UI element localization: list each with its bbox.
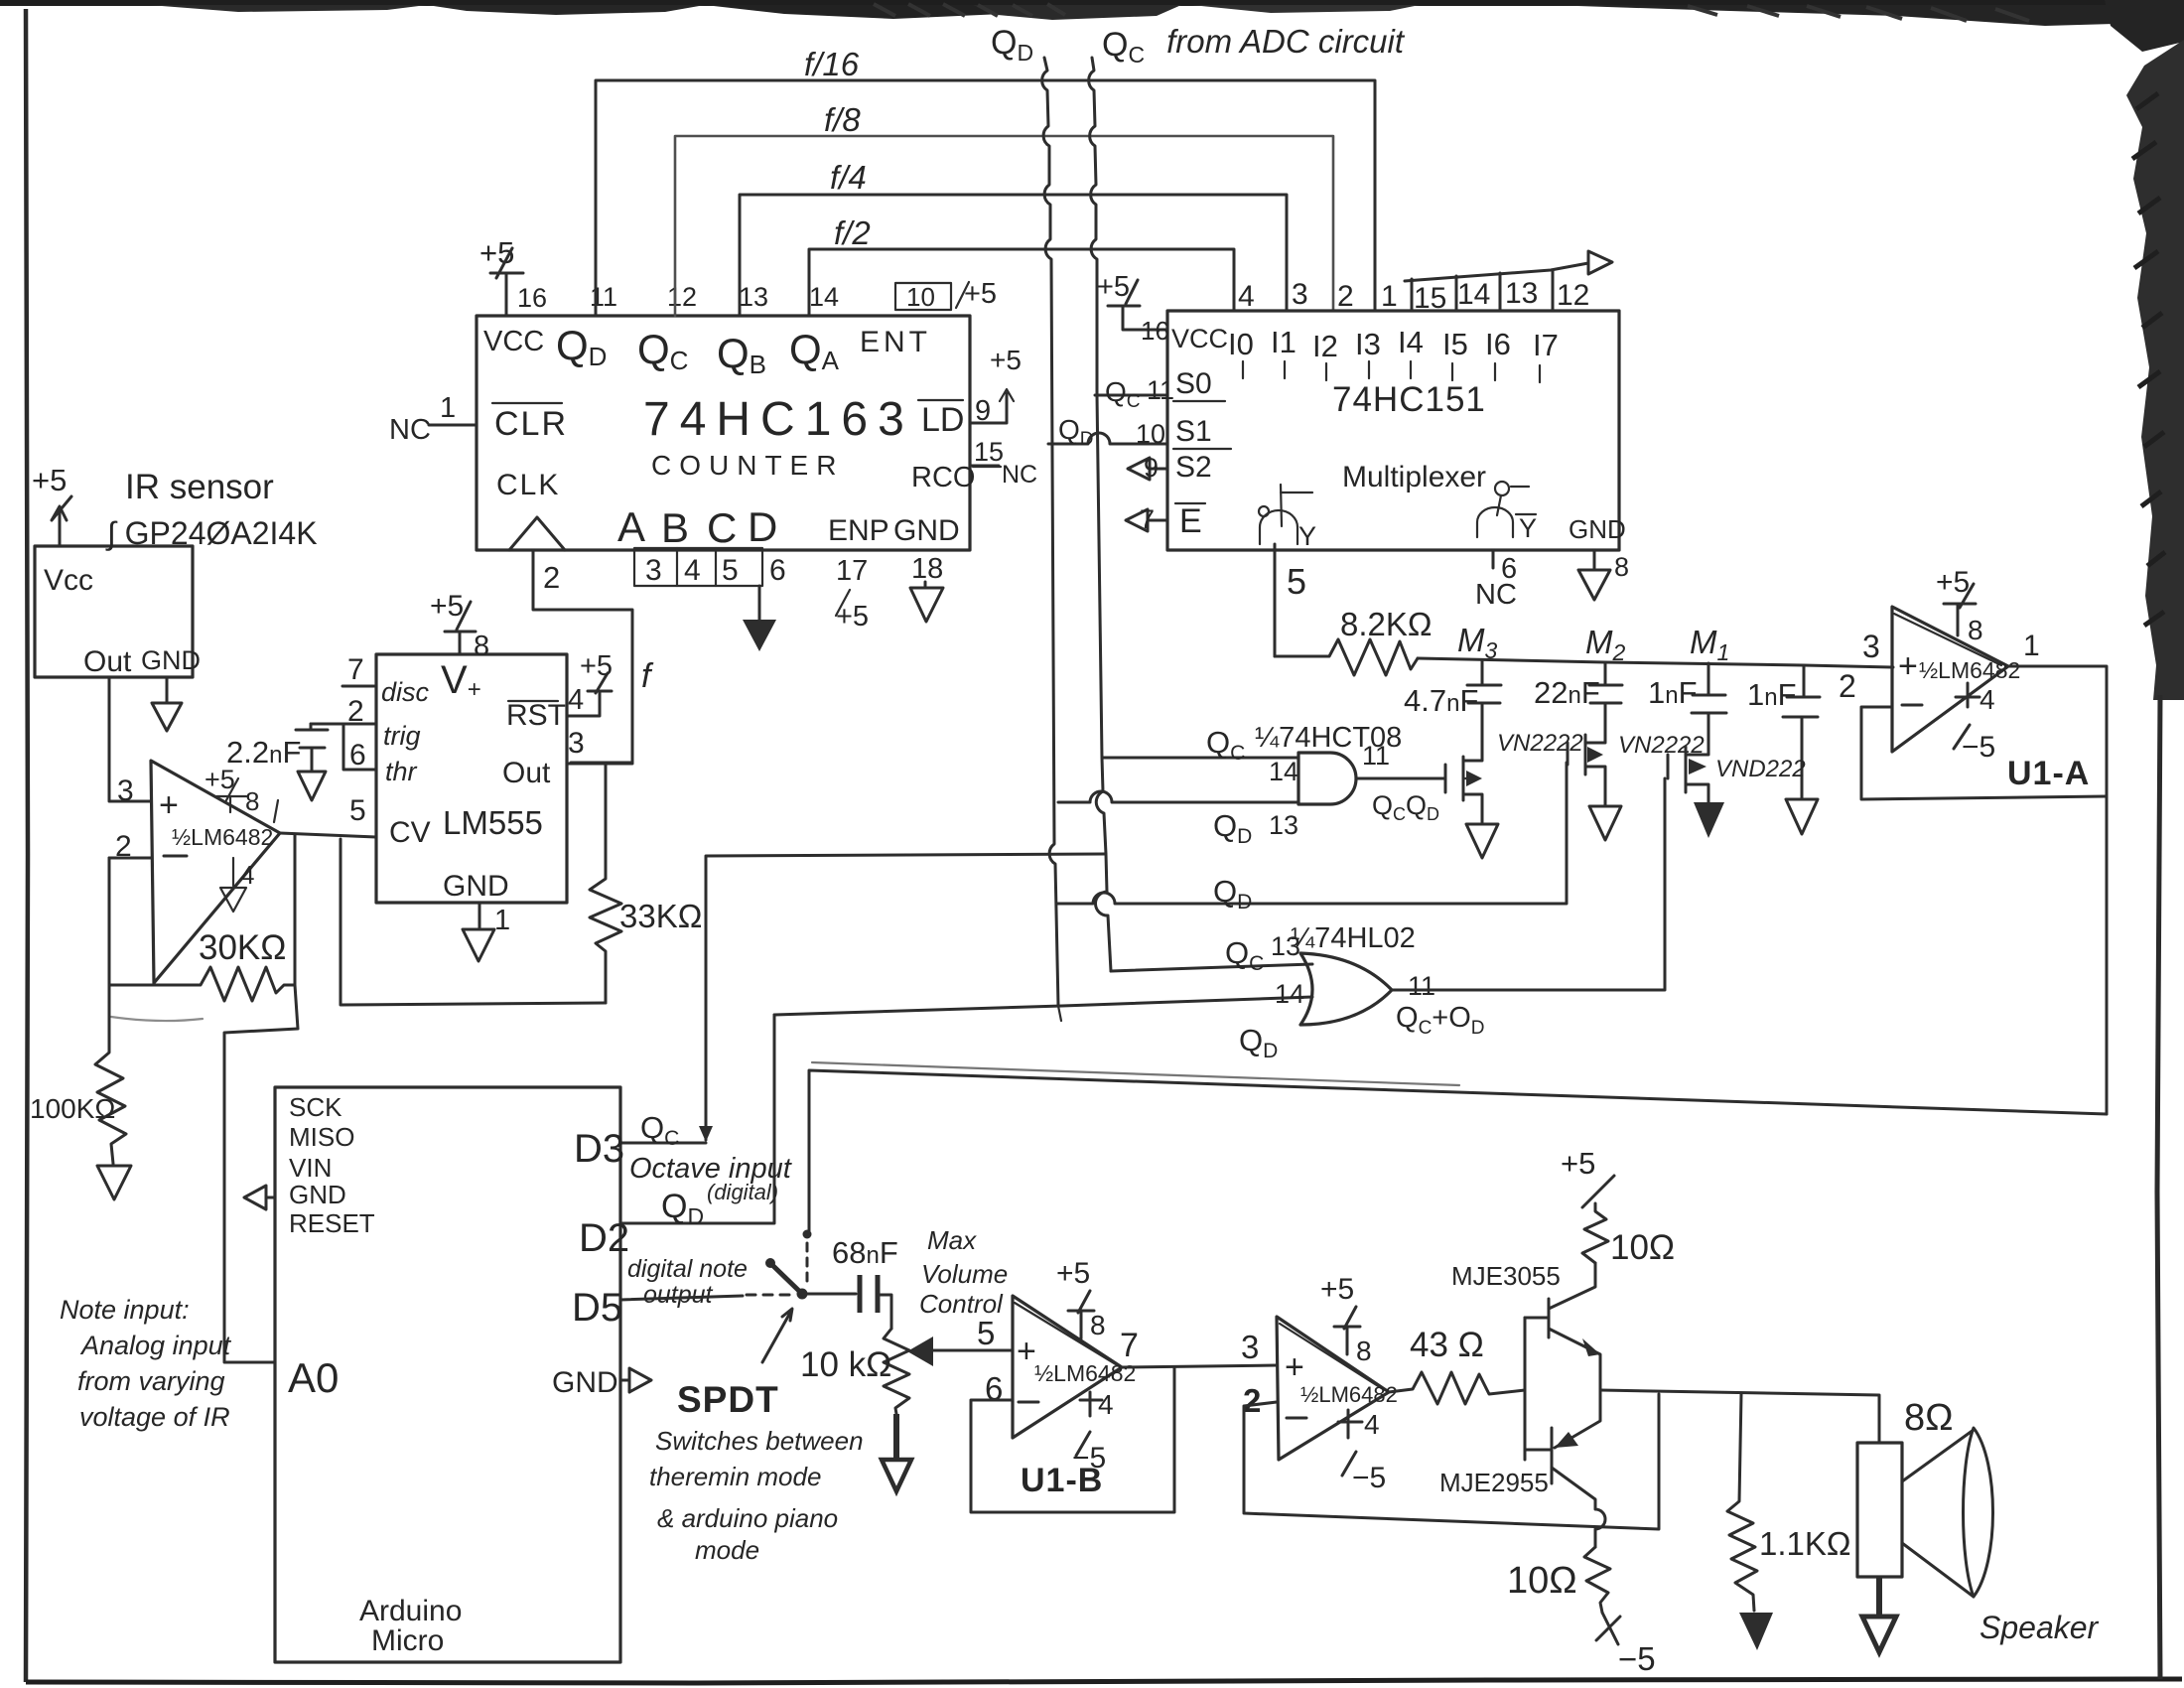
internal Ybar gate symbol bbox=[1477, 482, 1537, 543]
svg-text:11: 11 bbox=[1408, 971, 1435, 1001]
svg-text:MJE3055: MJE3055 bbox=[1451, 1261, 1561, 1291]
svg-text:U1-A: U1-A bbox=[2007, 755, 2090, 792]
svg-text:∫ GP24ØA2I4K: ∫ GP24ØA2I4K bbox=[105, 515, 318, 551]
svg-text:8: 8 bbox=[1614, 552, 1629, 582]
timer U6 LM555 body bbox=[376, 654, 567, 903]
pin 6 D input to ground bbox=[743, 554, 786, 651]
svg-text:¼74HL02: ¼74HL02 bbox=[1291, 922, 1416, 954]
power +5 at 555 pin 8 bbox=[430, 590, 489, 662]
pin 15 RCO NC stub bbox=[970, 437, 1037, 489]
ir sensor U7 box bbox=[35, 546, 193, 677]
svg-text:f/2: f/2 bbox=[834, 214, 871, 251]
svg-text:D: D bbox=[748, 503, 777, 550]
svg-text:NC: NC bbox=[1475, 579, 1517, 611]
svg-text:I1: I1 bbox=[1271, 325, 1297, 359]
svg-text:GND: GND bbox=[893, 514, 960, 547]
power amp -5 pin 4 bbox=[1338, 1409, 1386, 1494]
svg-text:RCO: RCO bbox=[911, 462, 975, 493]
wire f/16 from pin 11 to mux pin 1 bbox=[596, 80, 1375, 316]
svg-text:3: 3 bbox=[568, 727, 585, 760]
pin 5 Y output lead bbox=[1275, 544, 1306, 656]
svg-text:5: 5 bbox=[1287, 561, 1306, 602]
svg-text:+5: +5 bbox=[1056, 1257, 1090, 1290]
svg-text:½LM6482: ½LM6482 bbox=[172, 824, 273, 850]
svg-text:13: 13 bbox=[1269, 810, 1298, 840]
pin 2 CLK wire to 555 out (net f) bbox=[533, 550, 632, 763]
junction tick on QD bus at NOR14 line bbox=[1058, 1006, 1061, 1021]
op-amp U1-B triangle bbox=[1013, 1296, 1136, 1438]
svg-text:Out: Out bbox=[83, 645, 132, 678]
svg-text:C: C bbox=[707, 504, 737, 551]
svg-text:digital note: digital note bbox=[627, 1255, 748, 1283]
resistor 100K ohm to ground bbox=[30, 985, 131, 1199]
resistor 10 ohm bottom bbox=[1507, 1547, 1610, 1613]
svg-text:+5: +5 bbox=[836, 601, 869, 633]
svg-text:8: 8 bbox=[245, 786, 259, 816]
svg-text:Vcc: Vcc bbox=[44, 564, 93, 597]
pins 3 4 5 boxed (A B C inputs) bbox=[634, 548, 762, 587]
svg-text:8.2KΩ: 8.2KΩ bbox=[1340, 606, 1433, 642]
svg-text:output: output bbox=[643, 1281, 714, 1309]
svg-text:D5: D5 bbox=[572, 1286, 622, 1330]
clock input triangle bbox=[509, 517, 565, 550]
pin 7 disc stub bbox=[342, 653, 430, 707]
svg-text:13: 13 bbox=[1505, 277, 1538, 310]
svg-text:voltage of IR: voltage of IR bbox=[79, 1402, 230, 1432]
svg-text:2: 2 bbox=[543, 560, 560, 595]
svg-text:9: 9 bbox=[1144, 453, 1159, 483]
svg-text:33KΩ: 33KΩ bbox=[619, 898, 702, 934]
resistor 10 ohm top bbox=[1582, 1203, 1675, 1267]
transistor Q5 VN2222 at M1 bbox=[1668, 747, 1806, 838]
svg-text:I3: I3 bbox=[1355, 327, 1381, 361]
wire power amp feedback to output node bbox=[1244, 1394, 1659, 1529]
svg-text:VIN: VIN bbox=[289, 1153, 332, 1183]
scan artifact: top-right corner blob bbox=[2105, 0, 2184, 52]
svg-text:IR sensor: IR sensor bbox=[125, 468, 274, 506]
svg-text:14: 14 bbox=[1457, 278, 1490, 311]
svg-text:+5: +5 bbox=[1936, 566, 1970, 599]
pin 3 Out bbox=[502, 727, 632, 789]
svg-text:theremin mode: theremin mode bbox=[649, 1462, 821, 1491]
svg-text:+5: +5 bbox=[205, 765, 235, 794]
svg-text:disc: disc bbox=[381, 677, 430, 707]
svg-text:6: 6 bbox=[769, 554, 786, 587]
select S2 stub with left arrow bbox=[1128, 451, 1212, 484]
svg-text:I5: I5 bbox=[1442, 327, 1468, 361]
svg-text:D3: D3 bbox=[574, 1127, 624, 1171]
svg-text:6: 6 bbox=[349, 739, 366, 772]
svg-text:Multiplexer: Multiplexer bbox=[1342, 461, 1486, 493]
svg-text:5: 5 bbox=[977, 1315, 995, 1351]
svg-text:from varying: from varying bbox=[77, 1366, 225, 1396]
svg-text:17: 17 bbox=[836, 555, 868, 587]
potentiometer 10k volume bbox=[800, 1329, 1013, 1491]
ir amp power -5 pin 4 ground bbox=[220, 858, 254, 912]
svg-text:SCK: SCK bbox=[289, 1092, 342, 1122]
pin numbers 4 3 2 1 on mux top bbox=[1238, 278, 1398, 313]
pin 17 ENP to +5 bbox=[836, 555, 869, 633]
wire Qc to AND gate pin 14 bbox=[1102, 757, 1298, 760]
svg-text:−5: −5 bbox=[1352, 1462, 1386, 1494]
wire D2 QD line up to NOR14 net bbox=[620, 1015, 774, 1223]
svg-text:+5: +5 bbox=[1561, 1146, 1595, 1181]
svg-text:4: 4 bbox=[1364, 1409, 1380, 1440]
svg-text:8: 8 bbox=[1356, 1336, 1372, 1366]
svg-text:7: 7 bbox=[347, 653, 364, 686]
svg-text:+: + bbox=[1285, 1348, 1304, 1386]
svg-text:MISO: MISO bbox=[289, 1122, 354, 1152]
svg-text:A: A bbox=[617, 503, 645, 550]
pin 9 LD pullup to +5 bbox=[970, 345, 1022, 427]
svg-text:11: 11 bbox=[590, 282, 617, 312]
svg-text:1.1KΩ: 1.1KΩ bbox=[1759, 1525, 1851, 1562]
svg-text:SPDT: SPDT bbox=[677, 1379, 779, 1420]
svg-text:2.2nF: 2.2nF bbox=[226, 735, 301, 770]
op-amp U1-A triangle bbox=[1892, 607, 2020, 752]
svg-text:2: 2 bbox=[1337, 280, 1354, 313]
pin 18 GND ground arrow bbox=[910, 553, 943, 622]
pin 1 CLR NC stub bbox=[389, 392, 477, 446]
svg-text:ENT: ENT bbox=[860, 326, 931, 358]
svg-text:10 kΩ: 10 kΩ bbox=[800, 1345, 891, 1384]
wire ir amp pin 2 bbox=[109, 857, 151, 860]
svg-text:+5: +5 bbox=[430, 590, 464, 623]
U1-A power -5 pin 4 bbox=[1954, 683, 1995, 764]
svg-text:NC: NC bbox=[1002, 461, 1037, 489]
svg-text:2: 2 bbox=[1839, 668, 1856, 704]
svg-text:8: 8 bbox=[1090, 1310, 1106, 1340]
svg-text:VND222: VND222 bbox=[1715, 756, 1806, 782]
svg-text:43 Ω: 43 Ω bbox=[1410, 1326, 1484, 1364]
svg-text:f/8: f/8 bbox=[824, 101, 861, 138]
power +5 at pin 16 of U2 bbox=[479, 235, 547, 316]
pin 8 GND ground arrow bbox=[1578, 550, 1629, 600]
scan artifact: right edge pencil wedge bbox=[2126, 40, 2184, 700]
pin 6 Ybar NC bbox=[1475, 550, 1517, 611]
svg-text:Arduino: Arduino bbox=[359, 1595, 462, 1627]
ir amp output pin 1 tick bbox=[274, 800, 278, 822]
transistor Q4 VN2222 at M2 bbox=[1568, 732, 1705, 840]
ir amp power +5 pin 8 bbox=[205, 765, 259, 816]
svg-text:+5: +5 bbox=[1097, 271, 1130, 303]
wire doubled stroke on sloped line bbox=[812, 1062, 1459, 1085]
wire QD to AND gate pin 13 (hops QC bus) bbox=[1058, 791, 1298, 802]
page border bottom bbox=[26, 1679, 2182, 1683]
svg-text:Max: Max bbox=[927, 1225, 977, 1255]
wire NOR output to Q5 gate bbox=[1392, 778, 1665, 990]
svg-text:A0: A0 bbox=[288, 1354, 339, 1401]
svg-text:Y: Y bbox=[1519, 513, 1537, 543]
svg-text:D2: D2 bbox=[579, 1216, 629, 1260]
counter U2 74HC163 body bbox=[477, 316, 970, 550]
power +5 above 10 ohm bbox=[1561, 1146, 1614, 1207]
svg-text:22nF: 22nF bbox=[1534, 675, 1600, 710]
svg-text:COUNTER: COUNTER bbox=[651, 450, 844, 481]
pin 4 RST pullup +5 bbox=[506, 650, 613, 732]
svg-text:+5: +5 bbox=[1320, 1273, 1354, 1306]
svg-text:CV: CV bbox=[389, 816, 431, 849]
capacitor 1nF spare to ground bbox=[1747, 665, 1820, 834]
svg-text:4: 4 bbox=[1238, 280, 1255, 313]
svg-text:+5: +5 bbox=[32, 463, 67, 497]
svg-text:S1: S1 bbox=[1175, 415, 1212, 448]
svg-text:1: 1 bbox=[2023, 630, 2040, 662]
svg-text:RESET: RESET bbox=[289, 1208, 375, 1238]
svg-text:16: 16 bbox=[1141, 316, 1169, 346]
svg-text:+5: +5 bbox=[990, 345, 1022, 375]
svg-text:U1-B: U1-B bbox=[1021, 1462, 1103, 1499]
wire ir sensor out down to op-amp pin 3 bbox=[109, 677, 151, 801]
svg-text:3: 3 bbox=[117, 774, 134, 807]
wire U1-A output to right and down bbox=[2008, 666, 2107, 1114]
pin 2 trig bbox=[311, 695, 421, 751]
svg-text:13: 13 bbox=[739, 282, 768, 312]
svg-text:CLR: CLR bbox=[494, 405, 568, 443]
note Max Volume Control bbox=[919, 1225, 1008, 1319]
svg-text:GND: GND bbox=[443, 870, 509, 903]
svg-text:I2: I2 bbox=[1312, 329, 1338, 363]
speaker SP1 8 ohm bbox=[1857, 1397, 2100, 1645]
pin 5 CV bbox=[349, 794, 431, 849]
svg-text:3: 3 bbox=[645, 554, 662, 587]
svg-text:GND: GND bbox=[141, 645, 201, 675]
svg-text:15: 15 bbox=[974, 437, 1004, 467]
svg-text:16: 16 bbox=[517, 283, 547, 313]
svg-text:1: 1 bbox=[1381, 280, 1398, 313]
scan artifact: top edge dark band bbox=[0, 0, 2184, 26]
svg-text:7: 7 bbox=[1140, 504, 1155, 534]
svg-text:5: 5 bbox=[722, 554, 739, 587]
wire f/2 from pin 14 to mux pin 4 bbox=[809, 249, 1234, 316]
wire QD/D2 to NOR gate pin 14 bbox=[774, 997, 1312, 1015]
svg-text:7: 7 bbox=[1120, 1327, 1139, 1364]
multiplexer U3 74HC151 body bbox=[1167, 311, 1619, 550]
svg-text:4: 4 bbox=[1979, 684, 1995, 715]
capacitor 22nF at M2 bbox=[1534, 662, 1622, 737]
enable E-bar stub with left arrow bbox=[1126, 502, 1205, 540]
svg-text:S2: S2 bbox=[1175, 451, 1212, 484]
pin 10 boxed bbox=[895, 282, 951, 312]
svg-text:VN2222: VN2222 bbox=[1497, 730, 1583, 757]
wire 555 feedback loop bottom bbox=[341, 839, 606, 1005]
svg-text:5: 5 bbox=[349, 794, 366, 827]
svg-text:9: 9 bbox=[975, 395, 991, 427]
svg-text:VCC: VCC bbox=[483, 326, 544, 357]
svg-text:RST: RST bbox=[506, 699, 566, 732]
wire output node to speaker bbox=[1600, 1390, 1879, 1443]
svg-text:thr: thr bbox=[385, 757, 418, 786]
svg-text:Note input:: Note input: bbox=[60, 1295, 190, 1325]
capacitor 4.7nF at M3 bbox=[1404, 660, 1501, 743]
svg-text:2: 2 bbox=[1243, 1382, 1261, 1419]
svg-text:Volume: Volume bbox=[921, 1259, 1008, 1289]
svg-text:8: 8 bbox=[474, 631, 489, 662]
bus wire QD vertical from ADC bbox=[1042, 58, 1058, 1006]
U1-B power +5 pin 8 bbox=[1056, 1257, 1106, 1340]
svg-text:f/16: f/16 bbox=[804, 46, 860, 82]
svg-text:3: 3 bbox=[1241, 1329, 1259, 1365]
pin 6 thr tied to pin 2 bbox=[343, 724, 418, 786]
page border right (below wedge) bbox=[2157, 695, 2160, 1679]
svg-text:12: 12 bbox=[667, 282, 697, 312]
note Note input block bbox=[60, 1295, 232, 1432]
svg-text:½LM6482: ½LM6482 bbox=[1919, 657, 2020, 683]
power +5 at ENT pin 10 bbox=[956, 278, 997, 310]
svg-text:Speaker: Speaker bbox=[1979, 1610, 2100, 1645]
power +5 into ir sensor vcc bbox=[32, 463, 71, 546]
wire D3 Qc octave line up and right to QC bus bbox=[620, 854, 1106, 1143]
power -5 below 10 ohm bbox=[1596, 1613, 1656, 1677]
select S1 wire from Qd bus with hop over Qc bus bbox=[1048, 414, 1231, 450]
svg-text:I7: I7 bbox=[1533, 328, 1559, 362]
svg-text:B: B bbox=[661, 504, 689, 551]
page border left bbox=[26, 9, 28, 1682]
svg-text:NC: NC bbox=[389, 414, 431, 446]
svg-text:1: 1 bbox=[440, 392, 456, 424]
svg-text:(digital): (digital) bbox=[707, 1180, 778, 1204]
wire U1-A feedback pin 2 loop bbox=[1861, 707, 2107, 799]
transistor Q3 VN2222 at M3 bbox=[1445, 730, 1583, 858]
capacitor 2.2nF on trig bbox=[226, 724, 328, 800]
svg-text:74HC163: 74HC163 bbox=[643, 393, 914, 446]
transistor Q1 MJE3055 NPN bbox=[1451, 1261, 1600, 1460]
svg-text:I4: I4 bbox=[1398, 325, 1424, 359]
svg-text:1: 1 bbox=[494, 905, 510, 936]
wire theremin output long sloped line to switch bbox=[809, 1070, 2107, 1234]
arduino gnd left arrow bbox=[244, 1186, 275, 1209]
svg-text:CLK: CLK bbox=[496, 469, 560, 501]
svg-text:4: 4 bbox=[1098, 1389, 1114, 1420]
svg-text:68nF: 68nF bbox=[832, 1235, 898, 1270]
gate U4 quarter 74HCT08 AND bbox=[1255, 722, 1402, 804]
svg-text:& arduino piano: & arduino piano bbox=[657, 1503, 838, 1533]
wire theremin node M3-M2-M1 to U1-A pin 3 bbox=[1418, 658, 1893, 667]
internal Y output gate symbol bbox=[1259, 485, 1316, 551]
svg-text:4: 4 bbox=[568, 684, 584, 716]
svg-text:+5: +5 bbox=[964, 278, 997, 310]
wire ir amp output to 555 CV bbox=[280, 833, 376, 837]
arduino gnd right arrow bbox=[620, 1368, 651, 1392]
svg-text:+: + bbox=[1017, 1333, 1036, 1370]
svg-text:GND: GND bbox=[552, 1366, 618, 1399]
power amp +5 pin 8 bbox=[1320, 1273, 1372, 1366]
svg-text:4: 4 bbox=[684, 554, 701, 587]
pin labels I0-I7 bbox=[1228, 325, 1559, 363]
switch SW1 SPDT bbox=[765, 1230, 812, 1300]
svg-text:4.7nF: 4.7nF bbox=[1404, 683, 1478, 718]
svg-text:E: E bbox=[1179, 502, 1202, 540]
bus wire QC vertical from ADC bbox=[1089, 58, 1111, 971]
svg-text:74HC151: 74HC151 bbox=[1332, 380, 1486, 419]
svg-text:12: 12 bbox=[1557, 279, 1589, 312]
resistor 43 ohm bbox=[1389, 1326, 1525, 1404]
svg-text:ENP: ENP bbox=[828, 514, 889, 547]
svg-text:14: 14 bbox=[809, 282, 839, 312]
svg-text:Out: Out bbox=[502, 757, 551, 789]
wire U1-B output to power amp pin 3 bbox=[1122, 1365, 1277, 1367]
U1-B power -5 pin 4 bbox=[1072, 1389, 1114, 1475]
svg-text:−5: −5 bbox=[1618, 1640, 1656, 1677]
resistor 30K ohm feedback bbox=[109, 858, 295, 1021]
wire Qc to NOR gate pin 13 bbox=[1111, 964, 1312, 971]
svg-text:I6: I6 bbox=[1485, 327, 1511, 361]
wire f/8 from pin 12 to mux pin 2 bbox=[675, 136, 1333, 316]
svg-text:+: + bbox=[1898, 647, 1918, 685]
svg-text:10: 10 bbox=[906, 282, 935, 312]
svg-text:Analog input: Analog input bbox=[79, 1331, 232, 1360]
svg-text:11: 11 bbox=[1362, 741, 1390, 771]
svg-text:11: 11 bbox=[1147, 375, 1174, 405]
resistor 8.2K ohm bbox=[1275, 606, 1433, 675]
svg-text:½LM6482: ½LM6482 bbox=[1300, 1382, 1398, 1407]
svg-text:GND: GND bbox=[289, 1180, 346, 1209]
wire D5 to switch with dashes bbox=[620, 1295, 794, 1300]
arduino micro U8 body bbox=[275, 1087, 620, 1662]
capacitor 1nF at M1 bbox=[1648, 663, 1726, 750]
wire AND output to Q3 gate bbox=[1356, 777, 1445, 780]
svg-text:Switches between: Switches between bbox=[655, 1426, 864, 1456]
pin 1 GND ground arrow bbox=[443, 870, 510, 961]
svg-text:Micro: Micro bbox=[371, 1624, 444, 1657]
svg-text:+: + bbox=[159, 786, 179, 824]
U1-A power +5 pin 8 bbox=[1936, 566, 1983, 645]
svg-text:+5: +5 bbox=[580, 650, 613, 682]
svg-text:30KΩ: 30KΩ bbox=[199, 928, 286, 967]
annotation arrow to switch bbox=[762, 1309, 792, 1362]
gate U5 quarter 74HC02 NOR bbox=[1291, 922, 1435, 1025]
power +5 at mux pin 16 bbox=[1097, 271, 1169, 346]
resistor 33K ohm on 555 out loop bbox=[590, 764, 702, 1003]
svg-text:4: 4 bbox=[240, 860, 254, 890]
svg-text:10Ω: 10Ω bbox=[1507, 1560, 1577, 1602]
select S0 wire from Qc bus bbox=[1095, 367, 1225, 412]
svg-text:LM555: LM555 bbox=[443, 804, 543, 841]
speaker ground arrow bbox=[1862, 1577, 1896, 1652]
svg-text:f/4: f/4 bbox=[830, 159, 867, 196]
op-amp U1 ir amp triangle bbox=[151, 761, 280, 983]
svg-text:MJE2955: MJE2955 bbox=[1439, 1468, 1549, 1497]
svg-text:14: 14 bbox=[1269, 757, 1298, 786]
svg-text:trig: trig bbox=[383, 721, 421, 751]
svg-text:VCC: VCC bbox=[1171, 324, 1228, 353]
svg-text:LD: LD bbox=[921, 401, 964, 439]
svg-text:mode: mode bbox=[695, 1535, 759, 1565]
ir sensor GND ground arrow bbox=[152, 677, 182, 731]
svg-text:Y: Y bbox=[1298, 521, 1316, 551]
svg-text:100KΩ: 100KΩ bbox=[30, 1093, 115, 1124]
wire f/4 from pin 13 to mux pin 3 bbox=[740, 195, 1287, 316]
svg-text:3: 3 bbox=[1292, 278, 1308, 311]
svg-text:3: 3 bbox=[1862, 629, 1880, 664]
svg-text:15: 15 bbox=[1414, 282, 1446, 315]
wire feedback from output down bbox=[294, 835, 297, 985]
capacitor 68nF bbox=[802, 1235, 898, 1329]
svg-text:10Ω: 10Ω bbox=[1610, 1228, 1675, 1267]
svg-text:8Ω: 8Ω bbox=[1904, 1397, 1954, 1439]
pin numbers 15 14 13 12 on mux top bbox=[1414, 277, 1589, 315]
svg-text:GND: GND bbox=[1569, 514, 1626, 544]
transistor Q2 MJE2955 PNP bbox=[1439, 1390, 1605, 1547]
wire QD to Q4 gate (hops QC bus) bbox=[1056, 763, 1567, 904]
svg-text:−5: −5 bbox=[1962, 731, 1995, 764]
svg-text:18: 18 bbox=[911, 553, 943, 585]
svg-text:S0: S0 bbox=[1175, 367, 1212, 400]
wire U1-B feedback loop bbox=[971, 1368, 1174, 1512]
svg-text:10: 10 bbox=[1136, 419, 1165, 449]
input tick marks under I0-I7 bbox=[1243, 361, 1540, 382]
svg-text:8: 8 bbox=[1968, 615, 1983, 645]
